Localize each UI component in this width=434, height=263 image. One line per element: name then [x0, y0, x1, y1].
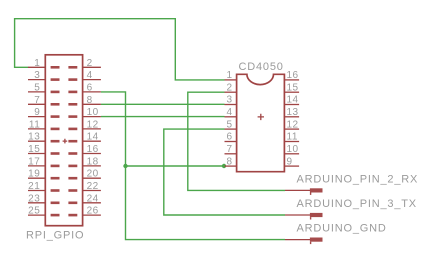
- svg-text:3: 3: [227, 95, 233, 106]
- svg-text:RPI_GPIO: RPI_GPIO: [26, 230, 84, 242]
- svg-text:11: 11: [29, 119, 40, 130]
- svg-text:20: 20: [87, 169, 99, 180]
- svg-text:15: 15: [28, 144, 40, 155]
- svg-text:ARDUINO_PIN_2_RX: ARDUINO_PIN_2_RX: [297, 173, 419, 185]
- svg-text:8: 8: [227, 156, 233, 167]
- svg-text:ARDUINO_GND: ARDUINO_GND: [297, 223, 387, 235]
- svg-text:2: 2: [227, 82, 233, 93]
- svg-text:6: 6: [227, 132, 233, 143]
- svg-text:4: 4: [87, 70, 93, 81]
- svg-text:9: 9: [287, 156, 293, 167]
- svg-text:9: 9: [34, 107, 40, 118]
- svg-text:16: 16: [287, 70, 299, 81]
- svg-text:17: 17: [28, 156, 40, 167]
- svg-text:ARDUINO_PIN_3_TX: ARDUINO_PIN_3_TX: [297, 198, 417, 210]
- svg-text:3: 3: [34, 70, 40, 81]
- svg-text:5: 5: [34, 82, 40, 93]
- svg-text:24: 24: [87, 193, 99, 204]
- svg-text:13: 13: [28, 132, 40, 143]
- svg-text:22: 22: [87, 181, 99, 192]
- svg-text:12: 12: [87, 119, 99, 130]
- svg-text:15: 15: [287, 82, 299, 93]
- svg-text:CD4050: CD4050: [239, 61, 284, 73]
- svg-text:26: 26: [87, 206, 99, 217]
- svg-text:7: 7: [227, 144, 233, 155]
- svg-text:16: 16: [87, 144, 99, 155]
- svg-text:23: 23: [28, 193, 40, 204]
- svg-text:10: 10: [87, 107, 99, 118]
- svg-text:1: 1: [34, 58, 40, 69]
- svg-text:4: 4: [227, 107, 233, 118]
- svg-text:12: 12: [287, 119, 299, 130]
- svg-text:25: 25: [28, 206, 40, 217]
- svg-text:8: 8: [87, 95, 93, 106]
- svg-text:10: 10: [287, 144, 299, 155]
- svg-text:11: 11: [287, 132, 298, 143]
- svg-text:14: 14: [287, 95, 299, 106]
- svg-text:2: 2: [87, 58, 93, 69]
- svg-text:6: 6: [87, 82, 93, 93]
- svg-text:18: 18: [87, 156, 99, 167]
- svg-text:14: 14: [87, 132, 99, 143]
- svg-text:13: 13: [287, 107, 299, 118]
- svg-text:19: 19: [28, 169, 40, 180]
- svg-text:21: 21: [28, 181, 40, 192]
- svg-text:1: 1: [227, 70, 233, 81]
- svg-text:5: 5: [227, 119, 233, 130]
- svg-text:7: 7: [34, 95, 40, 106]
